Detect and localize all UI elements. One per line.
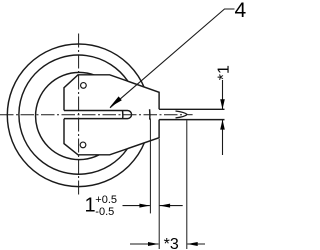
dim *1 upper segment: [222, 80, 224, 109]
hole top: [81, 83, 87, 89]
strip (flattened pin end) with rounded cap: [64, 111, 132, 119]
middle circle (battery face), gap hidden behind right tab: [19, 55, 128, 174]
pin top edge: [159, 108, 224, 110]
holder plate bottom part: [64, 119, 159, 155]
inner circle: [36, 72, 123, 159]
svg-text:+0.5: +0.5: [95, 194, 117, 206]
outer circle (battery edge): [7, 44, 150, 187]
horizontal centerline: [0, 114, 185, 116]
svg-text:*3: *3: [164, 236, 179, 250]
leader arrowhead: [110, 96, 122, 107]
dim *3 right arrow: [187, 243, 205, 245]
extension line B (tab right edge): [158, 139, 160, 249]
dim 1 +0.5/-0.5 right arrow: [160, 205, 183, 207]
dim 1 +0.5/-0.5 left arrow: [123, 205, 150, 207]
svg-text:1: 1: [85, 194, 96, 216]
svg-text:-0.5: -0.5: [95, 206, 114, 218]
dim *3 left arrow: [130, 243, 159, 245]
dim *1 lower arrowhead (up): [220, 120, 225, 130]
leader line for 4: [110, 9, 235, 108]
pin taper point (bowtie pinch): [176, 111, 188, 118]
dim *1 lower segment: [222, 120, 224, 155]
svg-text:4: 4: [235, 0, 247, 22]
dim *1 upper arrowhead (down): [220, 99, 225, 109]
extension line C (pin taper point): [186, 120, 188, 249]
svg-text:*1: *1: [216, 65, 233, 80]
pin bottom edge: [159, 119, 224, 121]
hole bottom: [80, 142, 86, 148]
holder plate top part: [64, 75, 159, 111]
extension line A (battery right edge): [149, 119, 151, 214]
vertical centerline: [78, 34, 80, 197]
